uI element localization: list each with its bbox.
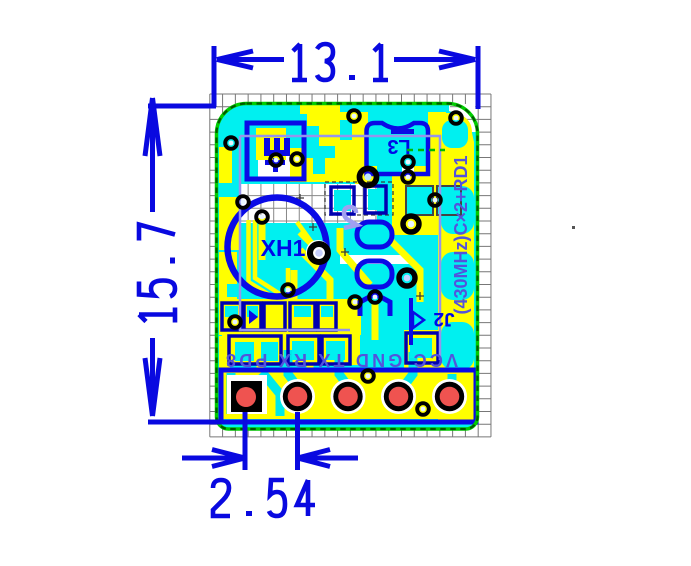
svg-text:L3: L3	[387, 135, 410, 157]
svg-text:VCC GND TX RX PD8: VCC GND TX RX PD8	[226, 350, 458, 370]
svg-text:XH1: XH1	[261, 235, 306, 261]
svg-text:(430MHz)C×2+RD1: (430MHz)C×2+RD1	[451, 155, 471, 314]
